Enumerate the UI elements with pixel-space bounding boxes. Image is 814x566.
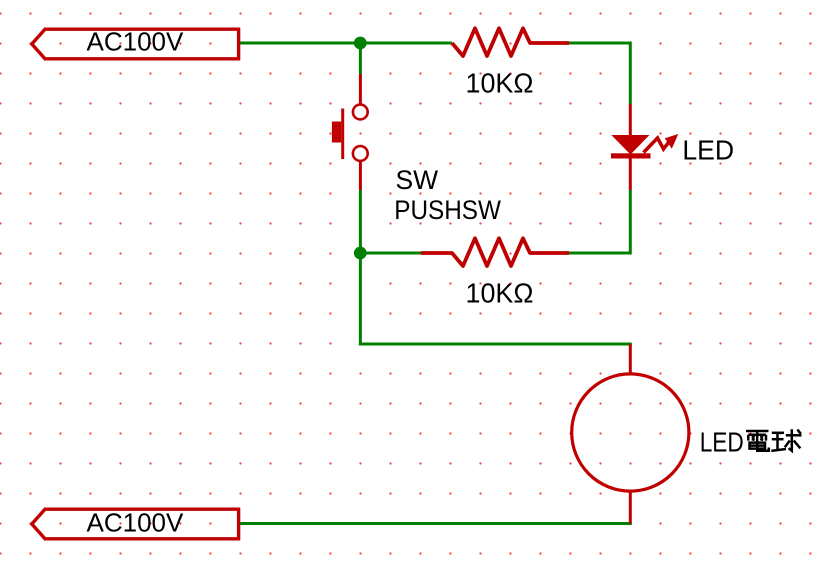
svg-text:PUSHSW: PUSHSW [394, 196, 501, 225]
svg-text:LED: LED [682, 134, 734, 166]
svg-text:SW: SW [396, 165, 439, 195]
svg-text:LED: LED [700, 427, 744, 458]
svg-text:AC100V: AC100V [87, 27, 184, 57]
svg-text:10KΩ: 10KΩ [466, 277, 534, 309]
svg-text:10KΩ: 10KΩ [466, 67, 534, 99]
svg-text:AC100V: AC100V [87, 507, 184, 537]
